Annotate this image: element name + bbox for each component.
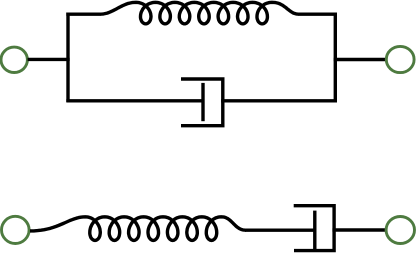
wire left vertical bus xyxy=(66,13,69,103)
wire right vertical bus xyxy=(334,13,337,103)
wire B2 to T4 xyxy=(332,228,386,231)
spring K2 (series, with lead-in wire) xyxy=(30,217,246,241)
wire T1 to left bus xyxy=(28,58,70,61)
terminal T4 (bottom-right green circle) xyxy=(386,217,414,244)
terminal T3 (bottom-left green circle) xyxy=(2,216,30,243)
wire top rail right xyxy=(299,12,338,15)
wire bottom rail right xyxy=(221,99,337,102)
damper B1 cylinder xyxy=(181,79,223,126)
terminal T2 (top-right green circle) xyxy=(386,46,414,72)
wire K2 to damper B2 rod xyxy=(245,228,315,231)
damper B2 cylinder xyxy=(294,206,334,251)
terminal T1 (top-left green circle) xyxy=(1,47,27,72)
damper B2 piston plate xyxy=(313,211,316,249)
damper B1 piston plate xyxy=(201,83,204,121)
wire right bus to T2 xyxy=(334,58,387,61)
wire bottom rail left (damper rod) xyxy=(66,99,203,102)
wire top rail left xyxy=(66,12,100,15)
spring K1 (top, parallel branch) xyxy=(100,2,299,24)
